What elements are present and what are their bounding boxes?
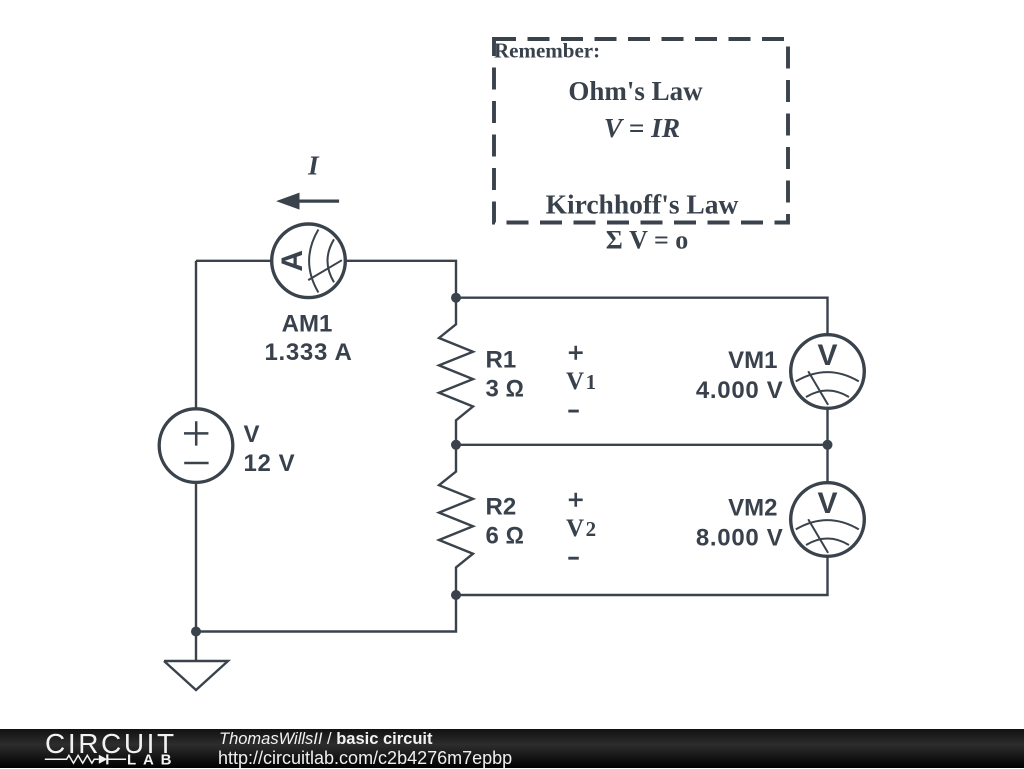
- svg-text:Remember:: Remember:: [494, 39, 600, 63]
- svg-text:VM1: VM1: [728, 347, 777, 374]
- svg-text:Σ V = o: Σ V = o: [606, 226, 689, 255]
- svg-text:V: V: [817, 339, 837, 372]
- svg-text:V2: V2: [566, 515, 596, 542]
- svg-text:V: V: [817, 487, 837, 520]
- svg-text:A: A: [276, 250, 309, 272]
- svg-text:Ohm's Law: Ohm's Law: [568, 76, 703, 106]
- svg-text:1.333 A: 1.333 A: [264, 339, 352, 366]
- svg-text:VM2: VM2: [728, 495, 777, 522]
- svg-text:3 Ω: 3 Ω: [486, 376, 524, 403]
- svg-text:I: I: [307, 151, 320, 181]
- svg-text:Kirchhoff's Law: Kirchhoff's Law: [546, 189, 739, 220]
- svg-text:V1: V1: [566, 368, 596, 395]
- svg-text:6 Ω: 6 Ω: [486, 523, 524, 550]
- svg-text:12 V: 12 V: [244, 450, 296, 477]
- svg-text:V = IR: V = IR: [604, 112, 680, 143]
- svg-text:V: V: [244, 421, 260, 448]
- svg-text:LAB: LAB: [127, 752, 178, 769]
- svg-text:AM1: AM1: [282, 311, 333, 338]
- svg-text:R1: R1: [486, 347, 517, 374]
- svg-text:8.000 V: 8.000 V: [696, 525, 784, 552]
- svg-text:4.000 V: 4.000 V: [696, 377, 784, 404]
- svg-text:R2: R2: [486, 494, 517, 521]
